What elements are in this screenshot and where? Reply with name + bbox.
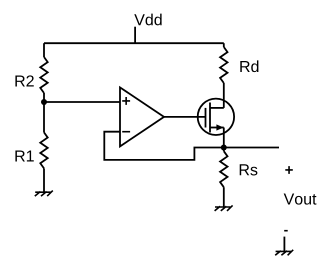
transistor M1 channel bar: [209, 103, 211, 133]
wire feedback from node B to op-amp - input: [104, 132, 224, 160]
ground (R1): [35, 191, 53, 197]
transistor M1 drain stub: [210, 107, 224, 109]
label R1: [15, 150, 33, 161]
node A junction dot: [41, 99, 47, 105]
wire node B to output terminal: [224, 147, 279, 149]
resistor Rs: [220, 151, 227, 187]
op-amp U1: [120, 87, 164, 146]
wire Vout ground stub: [283, 237, 285, 252]
wire Rs to ground: [223, 187, 225, 207]
wire op-amp output to gate: [164, 116, 206, 118]
resistor R2: [40, 57, 47, 93]
label Rs: [240, 164, 258, 175]
wire Rd top to rail: [223, 43, 225, 47]
ground (Vout): [275, 250, 293, 256]
ground (Rs): [215, 205, 233, 211]
wire R1 to ground: [43, 168, 45, 192]
wire left drop to R2: [43, 43, 45, 57]
wire node A to op-amp + input: [44, 101, 120, 103]
transistor M1 gate bar: [205, 108, 207, 128]
resistor R1: [40, 132, 47, 168]
node B junction dot: [221, 145, 227, 151]
wire source down to node B: [223, 128, 225, 148]
wire top rail: [44, 42, 224, 44]
label - (Vout minus terminal): [284, 230, 288, 232]
wire node B down to Rs: [223, 148, 225, 152]
label Rd: [240, 60, 258, 72]
label Vout: [284, 193, 317, 204]
wire node A down to R1: [43, 102, 45, 132]
transistor M1 body circle: [198, 99, 234, 135]
label + (Vout plus terminal): [285, 166, 293, 174]
node Vdd label: [134, 14, 161, 26]
op-amp + input symbol: [122, 97, 130, 105]
wire Vdd tick: [134, 27, 136, 44]
transistor M1 source stub: [210, 127, 224, 129]
op-amp - input symbol: [122, 131, 130, 133]
resistor Rd: [220, 47, 227, 83]
transistor M1 source arrow: [216, 124, 223, 130]
wire R2 bottom to node A: [43, 93, 45, 102]
label R2: [15, 75, 33, 86]
wire drain up to Rd: [223, 83, 225, 108]
